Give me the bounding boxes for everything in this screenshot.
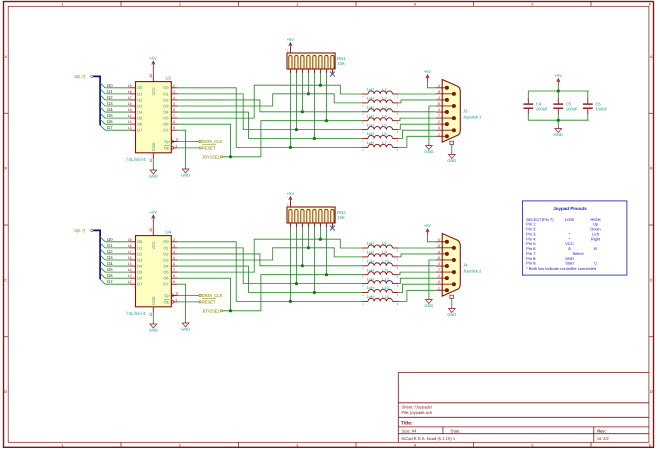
svg-text:6: 6 — [173, 262, 175, 266]
wire net B (pin3 to L5) — [177, 94, 362, 130]
inductors 8 — [362, 247, 368, 249]
frame row ticks — [4, 112, 9, 114]
svg-text:D5: D5 — [107, 267, 113, 272]
wire L-row7 to pin1 — [399, 290, 436, 301]
svg-text:Joystick 1: Joystick 1 — [463, 115, 482, 120]
svg-text:17: 17 — [128, 250, 132, 254]
svg-text:RESET: RESET — [202, 299, 216, 304]
svg-text:D6: D6 — [107, 273, 113, 278]
wires bus to latch inputs — [105, 241, 129, 243]
svg-text:GND: GND — [447, 312, 456, 317]
svg-text:20: 20 — [149, 228, 153, 232]
wire net D (pin5 to L2) — [177, 248, 362, 260]
svg-text:C: C — [650, 277, 653, 282]
wire pin8 to ground — [429, 106, 436, 144]
svg-text:L10: L10 — [382, 259, 389, 264]
svg-text:GND: GND — [181, 327, 190, 332]
wire O7 pin9 to ground — [177, 130, 185, 167]
svg-text:D1: D1 — [107, 89, 113, 94]
svg-text:Cp: Cp — [165, 293, 170, 298]
svg-text:B: B — [650, 166, 653, 171]
svg-text:D4: D4 — [107, 107, 113, 112]
svg-text:Rev:: Rev: — [597, 429, 606, 434]
wire net C (pin4 to L3) — [177, 254, 362, 266]
svg-text:O4: O4 — [163, 109, 169, 114]
resistor network RN1 — [287, 53, 335, 69]
wire +5V to top rail — [557, 86, 559, 91]
svg-text:D0: D0 — [137, 239, 143, 244]
global label RESET — [199, 147, 201, 149]
svg-text:A: A — [650, 54, 653, 59]
bus D[0..7] — [93, 76, 100, 125]
svg-text:D[0..7]: D[0..7] — [74, 228, 84, 233]
capacitor C6 — [587, 91, 589, 98]
svg-text:Date:: Date: — [451, 429, 461, 434]
svg-text:2: 2 — [438, 120, 440, 124]
svg-text:Size: A4: Size: A4 — [402, 429, 418, 434]
svg-text:U3: U3 — [166, 76, 172, 81]
wire L-row4 to pin7 — [399, 118, 436, 121]
svg-text:L13: L13 — [382, 285, 389, 290]
svg-text:2: 2 — [438, 274, 440, 278]
svg-text:1uH: 1uH — [367, 87, 374, 92]
svg-text:D5: D5 — [107, 113, 113, 118]
svg-text:GND: GND — [151, 296, 156, 305]
svg-text:100nF: 100nF — [566, 107, 578, 112]
svg-text:+5V: +5V — [287, 191, 295, 196]
svg-text:2: 2 — [179, 443, 181, 448]
svg-text:O1: O1 — [163, 91, 168, 96]
wire shield to ground — [451, 298, 453, 306]
svg-text:9: 9 — [438, 90, 440, 94]
svg-text:D7: D7 — [137, 282, 142, 287]
svg-text:1: 1 — [61, 443, 63, 448]
junctions pull-ups — [289, 300, 292, 303]
svg-text:5: 5 — [531, 443, 533, 448]
svg-text:100nF: 100nF — [595, 107, 607, 112]
svg-text:Sheet: /Joypads/: Sheet: /Joypads/ — [402, 405, 433, 410]
svg-text:11: 11 — [175, 138, 179, 142]
wire L-row1 to pin9 — [399, 247, 436, 249]
ground symbol at connector left — [428, 298, 430, 300]
svg-text:14: 14 — [128, 114, 132, 118]
ground symbol below U4 — [152, 313, 154, 322]
svg-text:O6: O6 — [163, 122, 168, 127]
wire net A (pin2 to L7) — [177, 88, 362, 148]
svg-text:D1: D1 — [137, 91, 142, 96]
svg-text:D7: D7 — [107, 279, 113, 284]
junction select net — [229, 309, 232, 312]
svg-text:L7: L7 — [382, 140, 386, 145]
wire net select (pin8 to JOY2SEL to L4) — [177, 278, 230, 311]
svg-text:1uH: 1uH — [367, 259, 374, 264]
wire L-row2 to pin4 — [399, 100, 436, 103]
wire shield to ground — [451, 144, 453, 152]
svg-text:D[0..7]: D[0..7] — [74, 74, 84, 79]
svg-text:D0: D0 — [137, 85, 143, 90]
svg-text:DATA_CLK: DATA_CLK — [202, 293, 223, 298]
svg-text:11: 11 — [175, 292, 179, 296]
svg-text:GND: GND — [151, 142, 156, 151]
svg-text:D4: D4 — [137, 263, 143, 268]
svg-text:10K: 10K — [337, 215, 345, 220]
svg-text:O5: O5 — [163, 116, 168, 121]
svg-text:Select: Select — [572, 251, 584, 256]
svg-text:JOY2SEL: JOY2SEL — [202, 308, 221, 313]
svg-text:16: 16 — [128, 256, 132, 260]
svg-text:D4: D4 — [137, 109, 143, 114]
svg-text:6: 6 — [649, 2, 651, 7]
svg-text:17: 17 — [128, 96, 132, 100]
svg-text:7: 7 — [438, 268, 440, 272]
svg-text:L8: L8 — [382, 241, 386, 246]
svg-text:D6: D6 — [137, 276, 142, 281]
svg-text:18: 18 — [128, 90, 132, 94]
svg-text:D1: D1 — [107, 243, 113, 248]
svg-text:1uH: 1uH — [367, 113, 374, 118]
svg-text:8: 8 — [173, 120, 175, 124]
svg-text:19: 19 — [128, 238, 132, 242]
svg-text:File: joypads.sch: File: joypads.sch — [402, 410, 433, 415]
bottom rail wire — [528, 119, 589, 121]
svg-text:74LS574: 74LS574 — [126, 311, 147, 316]
svg-text:8: 8 — [438, 102, 440, 106]
svg-text:9: 9 — [438, 244, 440, 248]
svg-text:VCC: VCC — [151, 87, 156, 95]
svg-text:O4: O4 — [163, 263, 169, 268]
svg-text:GND: GND — [447, 158, 456, 163]
wire bottom rail to ground — [557, 120, 559, 126]
svg-text:D3: D3 — [137, 257, 142, 262]
svg-text:GND: GND — [149, 328, 158, 333]
junction top rail — [557, 89, 560, 92]
svg-text:O0: O0 — [163, 239, 169, 244]
svg-text:74LS574: 74LS574 — [126, 157, 147, 162]
bus entries — [100, 83, 105, 88]
svg-text:4: 4 — [173, 250, 175, 254]
wire L-row3 to pin3 — [399, 111, 436, 113]
junction select net — [229, 155, 232, 158]
ground symbol on O7 net — [185, 321, 187, 323]
svg-text:D: D — [4, 389, 7, 394]
svg-text:8: 8 — [438, 256, 440, 260]
svg-text:D5: D5 — [137, 270, 142, 275]
svg-text:B: B — [594, 246, 597, 251]
svg-text:D2: D2 — [107, 95, 113, 100]
wire Cp to DATA_CLK — [177, 141, 199, 143]
bus entries — [100, 237, 105, 242]
svg-text:16: 16 — [128, 102, 132, 106]
svg-text:100nF: 100nF — [536, 107, 548, 112]
wire L-row5 to pin2 — [399, 278, 436, 283]
svg-text:D4: D4 — [107, 261, 113, 266]
note box Joypad Pinouts — [522, 201, 627, 275]
svg-text:O7: O7 — [163, 282, 168, 287]
74LS574 latch U4 — [136, 236, 172, 307]
svg-text:KiCad E.D.A. kicad (5.1.10)-1: KiCad E.D.A. kicad (5.1.10)-1 — [402, 436, 456, 441]
svg-text:RESET: RESET — [202, 145, 216, 150]
wire net D (pin5 to L2) — [177, 94, 362, 106]
svg-text:3: 3 — [438, 108, 440, 112]
junction bottom rail — [557, 119, 560, 122]
svg-text:2: 2 — [173, 238, 175, 242]
74LS574 latch U3 — [136, 82, 172, 153]
svg-text:19: 19 — [128, 84, 132, 88]
svg-text:D3: D3 — [107, 101, 113, 106]
svg-text:+5V: +5V — [424, 69, 432, 74]
svg-text:3: 3 — [173, 90, 175, 94]
svg-text:L3: L3 — [382, 105, 386, 110]
inductors 1 — [362, 93, 368, 95]
svg-text:1uH: 1uH — [367, 294, 374, 299]
svg-text:1: 1 — [175, 144, 177, 148]
svg-text:15: 15 — [128, 262, 132, 266]
ground symbol at connector left — [428, 144, 430, 146]
ground symbol on O7 net — [185, 167, 187, 169]
svg-text:D3: D3 — [107, 255, 113, 260]
svg-text:LOW: LOW — [565, 217, 574, 222]
svg-text:3: 3 — [173, 244, 175, 248]
global label JOY2SEL — [220, 310, 222, 312]
svg-text:O2: O2 — [163, 251, 168, 256]
wire net F (pin7 to L1) — [177, 85, 362, 118]
frame column ticks — [120, 2, 122, 7]
global label DATA_CLK — [199, 140, 201, 142]
svg-text:O7: O7 — [163, 128, 168, 133]
wire L-row3 to pin3 — [399, 265, 436, 267]
svg-text:+5V: +5V — [150, 56, 158, 61]
svg-text:5: 5 — [173, 102, 175, 106]
wire L-row6 to pin6 — [399, 130, 436, 138]
svg-text:8: 8 — [173, 274, 175, 278]
svg-text:1uH: 1uH — [367, 276, 374, 281]
pull-up drop wires — [289, 73, 291, 147]
svg-text:OE: OE — [164, 299, 170, 304]
svg-text:4: 4 — [173, 96, 175, 100]
wire L-row1 to pin9 — [399, 93, 436, 95]
svg-text:O3: O3 — [163, 257, 168, 262]
svg-text:+5V: +5V — [287, 37, 295, 42]
svg-text:10K: 10K — [337, 61, 345, 66]
svg-text:L1: L1 — [382, 87, 386, 92]
svg-text:12: 12 — [128, 126, 132, 130]
svg-text:O6: O6 — [163, 276, 168, 281]
svg-text:1: 1 — [175, 298, 177, 302]
svg-text:Cp: Cp — [165, 139, 170, 144]
wire net A (pin2 to L7) — [177, 242, 362, 302]
svg-text:O0: O0 — [163, 85, 169, 90]
wire L-row7 to pin1 — [399, 136, 436, 147]
svg-text:J4: J4 — [463, 263, 468, 268]
svg-text:L14: L14 — [382, 294, 389, 299]
svg-text:Title:: Title: — [401, 421, 413, 427]
svg-text:D2: D2 — [137, 97, 142, 102]
svg-text:1uH: 1uH — [367, 267, 374, 272]
svg-text:D2: D2 — [137, 251, 142, 256]
svg-text:L5: L5 — [382, 122, 386, 127]
svg-text:1uH: 1uH — [367, 285, 374, 290]
svg-text:13: 13 — [128, 274, 132, 278]
svg-text:D6: D6 — [107, 119, 113, 124]
wire L-row6 to pin6 — [399, 284, 436, 292]
svg-text:9: 9 — [173, 126, 175, 130]
svg-text:7: 7 — [173, 268, 175, 272]
wire net F (pin7 to L1) — [177, 239, 362, 272]
svg-text:10: 10 — [149, 312, 153, 316]
svg-text:6: 6 — [173, 108, 175, 112]
svg-text:+5V: +5V — [555, 73, 563, 78]
svg-text:L12: L12 — [382, 276, 389, 281]
wire net C (pin4 to L3) — [177, 100, 362, 112]
svg-text:1uH: 1uH — [367, 122, 374, 127]
wire OE to RESET — [177, 147, 199, 149]
svg-text:Joystick 2: Joystick 2 — [463, 269, 482, 274]
svg-text:12: 12 — [128, 280, 132, 284]
no-connect cross — [330, 72, 335, 77]
svg-text:JOY1SEL: JOY1SEL — [202, 154, 221, 159]
svg-text:+5V: +5V — [150, 210, 158, 215]
svg-text:1: 1 — [438, 286, 440, 290]
svg-text:DATA_CLK: DATA_CLK — [202, 139, 223, 144]
svg-text:5: 5 — [531, 2, 533, 7]
resistor network RN2 — [287, 207, 335, 223]
svg-text:O3: O3 — [163, 103, 168, 108]
svg-text:5: 5 — [438, 84, 440, 88]
svg-text:10: 10 — [149, 158, 153, 162]
wires bus to latch inputs — [105, 87, 129, 89]
svg-text:L2: L2 — [382, 96, 386, 101]
DB9 connector J3 Joystick 1 — [442, 80, 460, 143]
svg-text:Right: Right — [591, 236, 601, 241]
wire L-row4 to pin7 — [399, 272, 436, 275]
svg-text:C: C — [4, 277, 7, 282]
svg-text:7: 7 — [173, 114, 175, 118]
ground symbol below connector — [451, 153, 453, 155]
capacitor C5 — [557, 91, 559, 98]
svg-text:6: 6 — [438, 280, 440, 284]
DB9 connector J4 Joystick 2 — [442, 234, 460, 297]
svg-text:J3: J3 — [463, 109, 468, 114]
svg-text:D: D — [650, 389, 653, 394]
svg-text:A: A — [4, 54, 7, 59]
svg-text:D5: D5 — [137, 116, 142, 121]
svg-text:4: 4 — [438, 96, 440, 100]
svg-text:D2: D2 — [107, 249, 113, 254]
svg-text:7: 7 — [438, 114, 440, 118]
svg-text:GND: GND — [424, 149, 433, 154]
svg-text:GND: GND — [149, 174, 158, 179]
wire net select (pin8 to JOY1SEL to L4) — [177, 124, 230, 157]
svg-text:2: 2 — [173, 84, 175, 88]
wire +5V to pin5 — [428, 82, 436, 88]
svg-text:D6: D6 — [137, 122, 142, 127]
svg-text:1uH: 1uH — [367, 105, 374, 110]
svg-text:D7: D7 — [107, 125, 113, 130]
svg-text:1uH: 1uH — [367, 131, 374, 136]
wire OE to RESET — [177, 301, 199, 303]
svg-text:4: 4 — [438, 250, 440, 254]
svg-text:D1: D1 — [137, 245, 142, 250]
svg-text:GND: GND — [181, 173, 190, 178]
wire net E (pin6 to L6) — [177, 112, 362, 138]
svg-text:1: 1 — [61, 2, 63, 7]
wire O7 pin9 to ground — [177, 284, 185, 321]
capacitor C4 — [527, 91, 529, 98]
bus D[0..7] — [93, 230, 100, 279]
svg-text:Id: 2/2: Id: 2/2 — [597, 436, 609, 441]
svg-text:5: 5 — [438, 238, 440, 242]
wire +5V to pin5 — [428, 236, 436, 242]
svg-text:15: 15 — [128, 108, 132, 112]
svg-text:1uH: 1uH — [367, 241, 374, 246]
svg-text:O1: O1 — [163, 245, 168, 250]
global label DATA_CLK — [199, 294, 201, 296]
wire Cp to DATA_CLK — [177, 295, 199, 297]
svg-text:D7: D7 — [137, 128, 142, 133]
svg-text:D0: D0 — [107, 83, 113, 88]
svg-text:13: 13 — [128, 120, 132, 124]
wire L-row5 to pin2 — [399, 124, 436, 129]
top rail wire — [528, 90, 589, 92]
svg-text:3: 3 — [438, 262, 440, 266]
svg-text:3: 3 — [296, 443, 298, 448]
svg-text:* Both low indicate controller: * Both low indicate controller connected — [526, 266, 596, 271]
global label RESET — [199, 301, 201, 303]
svg-text:O2: O2 — [163, 97, 168, 102]
wire pin8 to ground — [429, 260, 436, 298]
svg-text:D0: D0 — [107, 237, 113, 242]
svg-text:5: 5 — [173, 256, 175, 260]
svg-text:D3: D3 — [137, 103, 142, 108]
wire net E (pin6 to L6) — [177, 266, 362, 292]
svg-text:1uH: 1uH — [367, 96, 374, 101]
svg-text:1: 1 — [438, 132, 440, 136]
svg-text:L9: L9 — [382, 250, 386, 255]
svg-text:A: A — [568, 246, 571, 251]
svg-text:GND: GND — [424, 303, 433, 308]
svg-text:6: 6 — [438, 126, 440, 130]
svg-text:2: 2 — [179, 2, 181, 7]
global label JOY1SEL — [220, 156, 222, 158]
ground symbol below U3 — [152, 159, 154, 168]
svg-text:L11: L11 — [382, 267, 388, 272]
svg-text:6: 6 — [649, 443, 651, 448]
svg-text:1uH: 1uH — [367, 140, 374, 145]
title block outline — [398, 373, 649, 443]
wire L-row2 to pin4 — [399, 254, 436, 257]
pull-up drop wires — [289, 227, 291, 301]
no-connect cross — [330, 226, 335, 231]
svg-text:L6: L6 — [382, 131, 386, 136]
svg-text:Joypad Pinouts: Joypad Pinouts — [553, 206, 587, 211]
svg-text:U4: U4 — [166, 230, 172, 235]
svg-text:3: 3 — [296, 2, 298, 7]
ground symbol caps — [557, 127, 559, 129]
svg-text:9: 9 — [173, 280, 175, 284]
svg-text:18: 18 — [128, 244, 132, 248]
svg-text:14: 14 — [128, 268, 132, 272]
svg-text:VCC: VCC — [151, 241, 156, 249]
wire net B (pin3 to L5) — [177, 248, 362, 284]
ground symbol below connector — [451, 307, 453, 309]
svg-text:B: B — [4, 166, 7, 171]
svg-text:OE: OE — [164, 145, 170, 150]
junctions pull-ups — [289, 146, 292, 149]
svg-text:+5V: +5V — [424, 223, 432, 228]
svg-text:O5: O5 — [163, 270, 168, 275]
svg-text:GND: GND — [554, 132, 563, 137]
svg-text:20: 20 — [149, 74, 153, 78]
